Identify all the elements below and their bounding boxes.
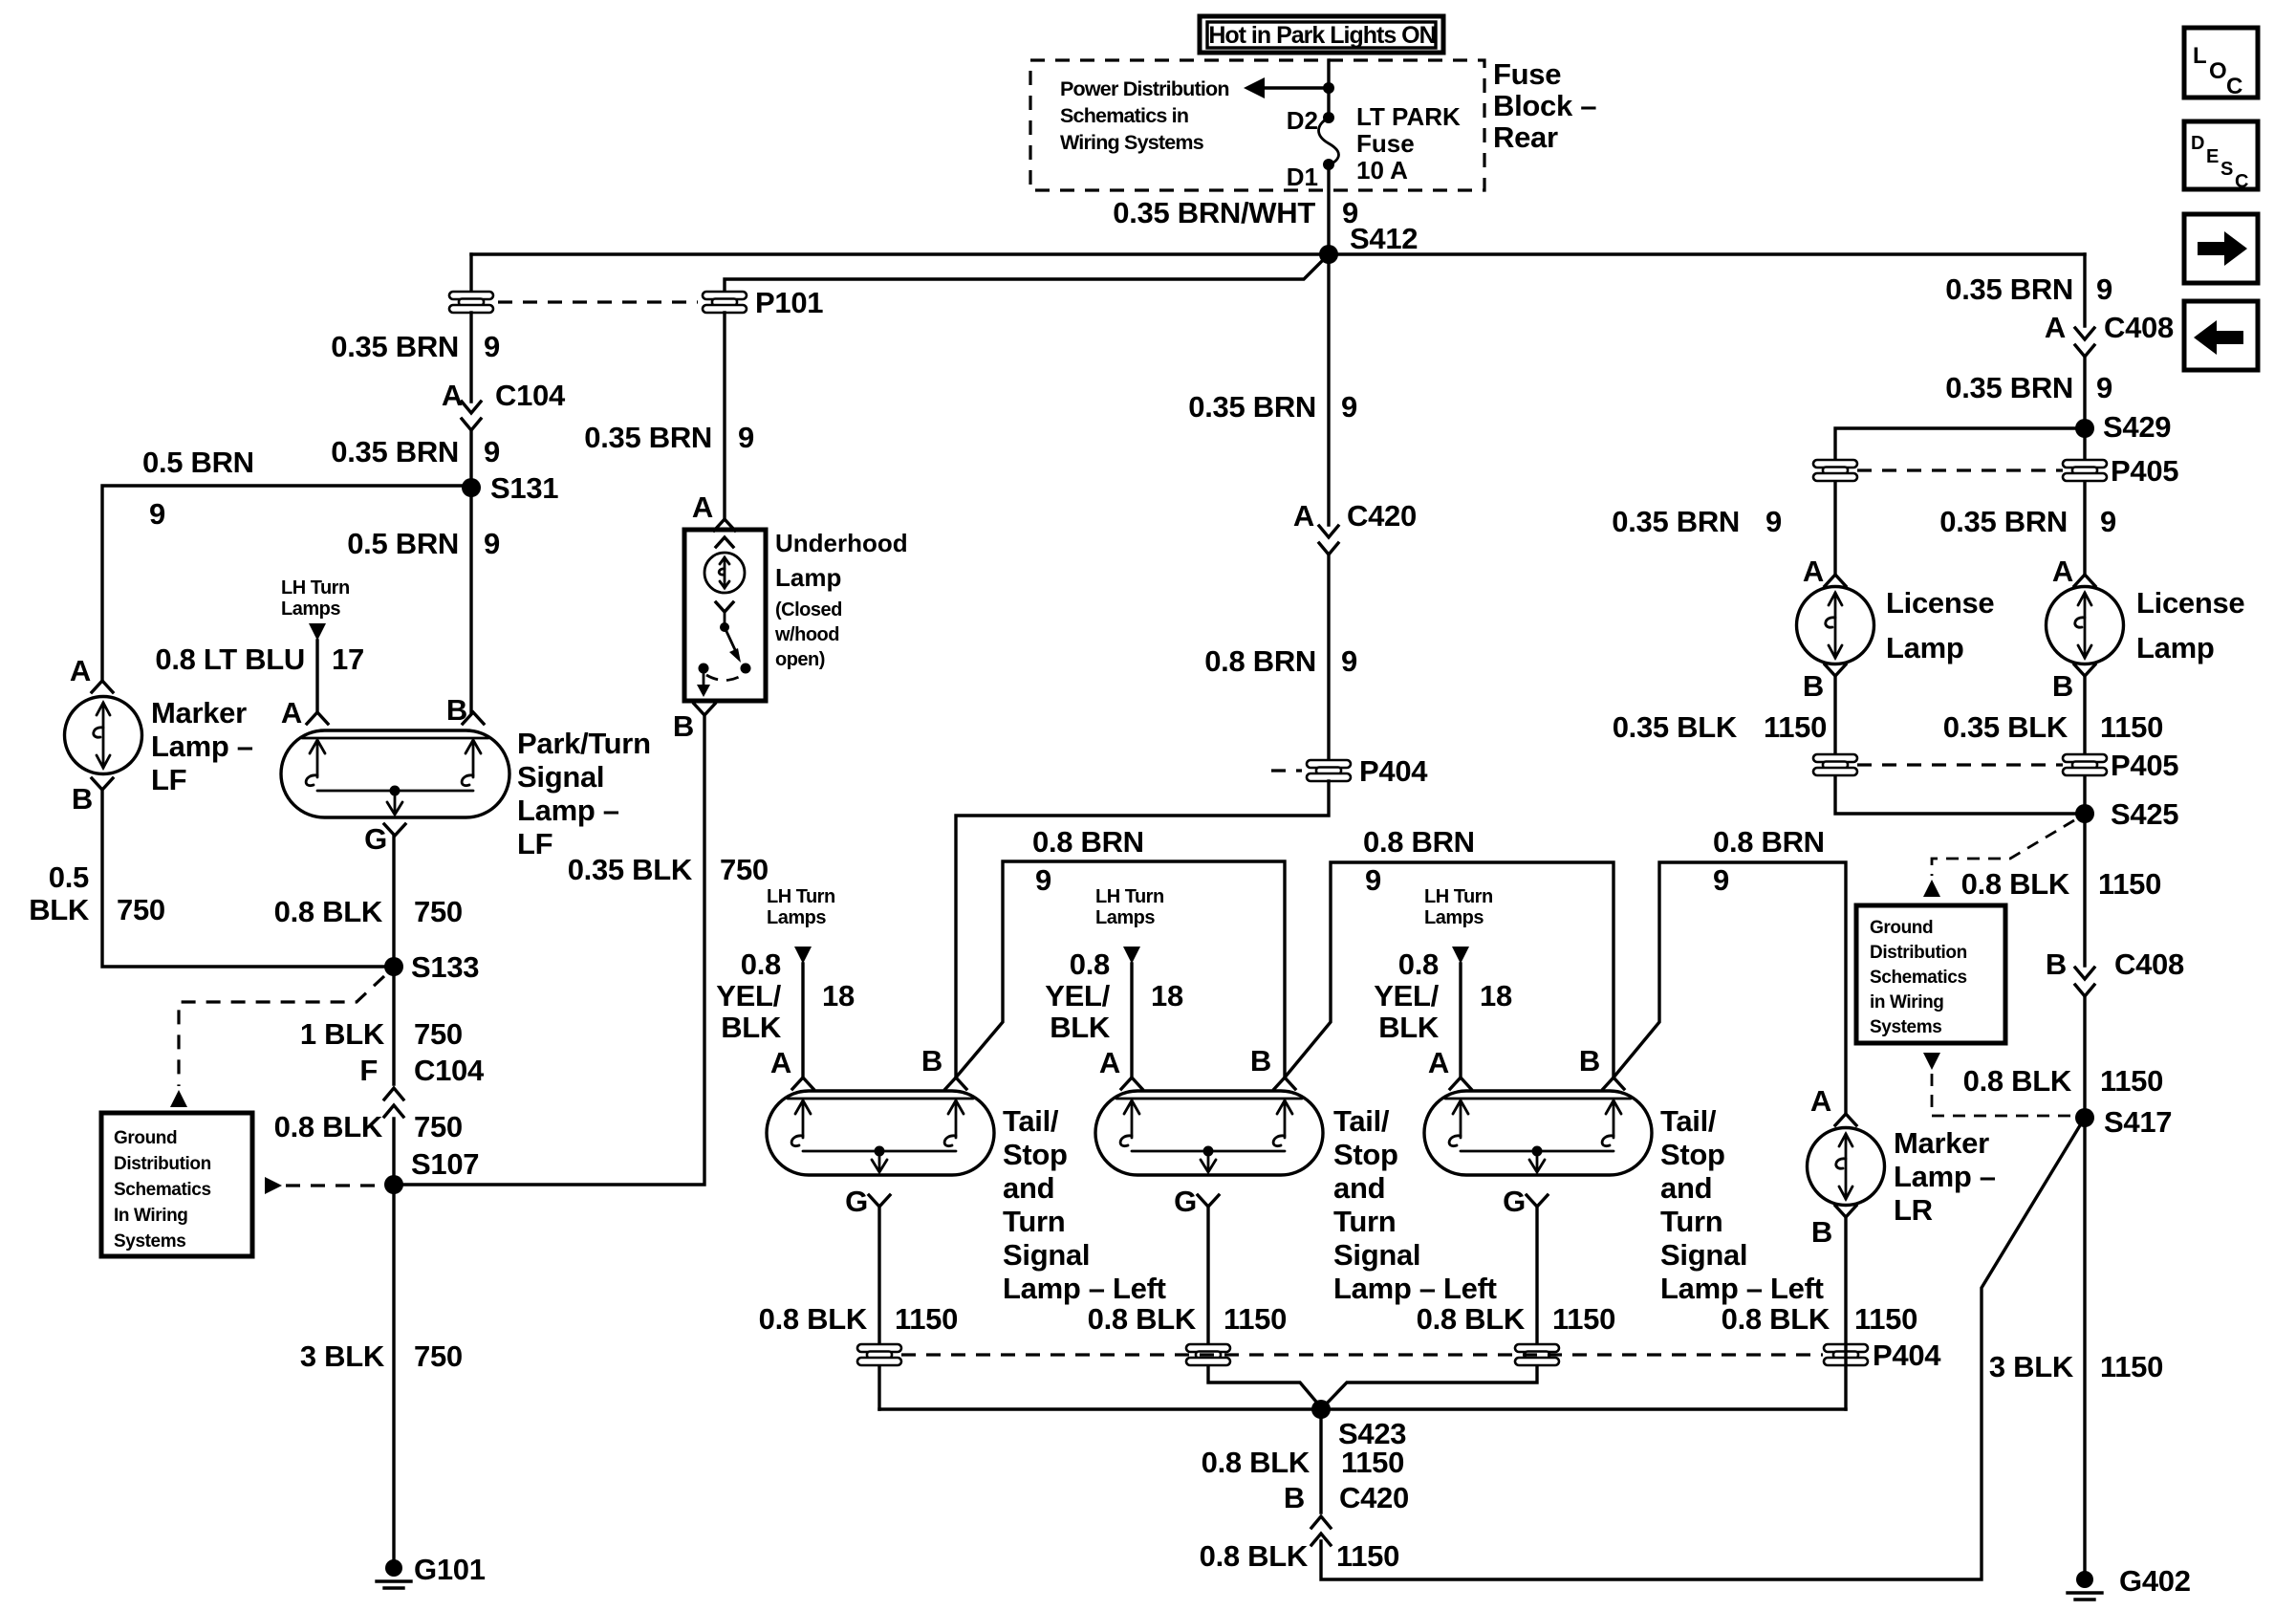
nav box back arrow <box>2184 301 2258 370</box>
svg-text:Ground: Ground <box>1870 918 1933 938</box>
label Underhood Lamp <box>775 529 908 592</box>
svg-text:Schematics: Schematics <box>1870 968 1967 988</box>
svg-text:B: B <box>2046 947 2067 981</box>
svg-text:A: A <box>2052 555 2073 588</box>
svg-text:BLK: BLK <box>29 893 90 926</box>
svg-text:License: License <box>1886 586 1994 620</box>
wire 3 BLK S107 to G101 <box>392 1185 395 1568</box>
pin G park/turn lamp <box>364 822 405 856</box>
wire main bus from S412 <box>471 252 2085 255</box>
svg-text:B: B <box>673 709 694 743</box>
label Park/Turn Signal Lamp - LF <box>517 727 651 860</box>
svg-text:LH Turn: LH Turn <box>281 577 350 599</box>
svg-text:O: O <box>2209 58 2227 84</box>
lamp Tail/Stop 2 filament B <box>1277 1100 1292 1114</box>
svg-text:Fuse: Fuse <box>1493 57 1561 91</box>
pin G tail lamp 3 <box>1503 1185 1548 1218</box>
pin A tail lamp 1 <box>770 1046 813 1089</box>
svg-text:1150: 1150 <box>2100 1350 2163 1383</box>
svg-text:L: L <box>2193 43 2207 69</box>
wire dashed reference to ground note <box>170 976 384 1107</box>
svg-text:S131: S131 <box>490 471 558 505</box>
svg-text:YEL/: YEL/ <box>716 979 781 1012</box>
wire license right B down <box>2083 676 2086 966</box>
lamp Tail/Stop 1 filament A <box>795 1100 811 1114</box>
svg-text:0.8 BLK: 0.8 BLK <box>1961 867 2070 901</box>
wire 0.8 BLK tail 1 G <box>877 1207 880 1409</box>
svg-text:BLK: BLK <box>1050 1011 1111 1044</box>
svg-text:0.5: 0.5 <box>49 860 89 894</box>
svg-text:0.8: 0.8 <box>1398 947 1439 981</box>
label 0.8 BLK 1150 (below C420) <box>1200 1539 1399 1573</box>
svg-text:YEL/: YEL/ <box>1374 979 1439 1012</box>
svg-text:Power Distribution: Power Distribution <box>1060 77 1229 100</box>
wire dashed reference S425 to ground note <box>1923 820 2074 897</box>
label 0.5 BLK 750 <box>29 860 165 926</box>
label Tail/Stop and Turn Signal Lamp - Left (3) <box>1660 1104 1824 1305</box>
label 3 BLK 1150 <box>1989 1350 2163 1383</box>
lamp Tail/Stop 3 ground arm arrow <box>1536 1151 1539 1171</box>
svg-text:0.35 BRN: 0.35 BRN <box>584 421 712 454</box>
svg-text:18: 18 <box>1151 979 1183 1012</box>
wire 0.8 BLK marker LR B to S423 bus <box>1844 1217 1847 1409</box>
underhood lamp assembly box <box>684 530 766 701</box>
svg-text:S429: S429 <box>2103 410 2171 444</box>
wire dashed reference ground note to S417 <box>1923 1053 2072 1116</box>
svg-text:C420: C420 <box>1339 1481 1409 1514</box>
connector P405 top pair <box>1813 454 2178 488</box>
svg-text:9: 9 <box>149 497 165 531</box>
fuse block dashed boundary <box>1030 60 1484 190</box>
svg-text:Lamp – Left: Lamp – Left <box>1333 1272 1497 1305</box>
pin B tail lamp 3 <box>1579 1044 1624 1089</box>
svg-text:0.8 BRN: 0.8 BRN <box>1204 644 1316 678</box>
header box "Hot in Park Lights ON" <box>1200 16 1443 53</box>
svg-text:1150: 1150 <box>895 1302 958 1336</box>
svg-text:1150: 1150 <box>1341 1446 1404 1479</box>
svg-text:Lamp –: Lamp – <box>151 729 253 763</box>
svg-text:Underhood: Underhood <box>775 529 908 557</box>
lamp Park/Turn Signal LF body <box>281 730 509 817</box>
nav box forward arrow <box>2184 214 2258 283</box>
svg-text:Lamp –: Lamp – <box>1894 1160 1996 1193</box>
svg-text:P404: P404 <box>1873 1339 1941 1372</box>
svg-text:Lamps: Lamps <box>767 907 826 928</box>
wire 0.8 BLK C420 to 3 BLK riser <box>1321 1118 2085 1579</box>
connector P101 <box>703 286 823 319</box>
svg-text:0.35 BRN: 0.35 BRN <box>1939 505 2068 538</box>
svg-text:1150: 1150 <box>2100 710 2163 744</box>
svg-text:Schematics in: Schematics in <box>1060 104 1188 127</box>
svg-text:and: and <box>1333 1171 1385 1205</box>
label 0.35 BRN 9 <box>1945 371 2112 404</box>
svg-text:9: 9 <box>738 421 754 454</box>
svg-text:0.8 BLK: 0.8 BLK <box>274 895 383 928</box>
svg-text:1150: 1150 <box>1336 1539 1399 1573</box>
label Tail/Stop and Turn Signal Lamp - Left (2) <box>1333 1104 1497 1305</box>
svg-text:Ground: Ground <box>114 1128 177 1148</box>
pin A underhood lamp <box>692 490 735 531</box>
svg-text:Stop: Stop <box>1333 1138 1398 1171</box>
pin D1 <box>1287 159 1334 191</box>
svg-text:B: B <box>1579 1044 1600 1078</box>
svg-text:0.35 BRN: 0.35 BRN <box>331 330 459 363</box>
ground G402 <box>2068 1564 2191 1600</box>
svg-text:9: 9 <box>484 435 500 468</box>
wire 0.8 BRN tail 1 B to tail 2 B <box>956 861 1285 1078</box>
label 0.35 BLK 1150 (right) <box>1943 710 2163 744</box>
svg-text:Lamp: Lamp <box>2136 631 2214 664</box>
lamp Tail/Stop 3 inner top conductor <box>1445 1098 1631 1100</box>
svg-text:Lamp: Lamp <box>1886 631 1963 664</box>
svg-text:9: 9 <box>1341 390 1357 424</box>
svg-text:0.8 BLK: 0.8 BLK <box>1963 1064 2072 1098</box>
svg-text:Marker: Marker <box>1894 1126 1989 1160</box>
svg-text:Stop: Stop <box>1003 1138 1068 1171</box>
svg-text:0.35 BRN: 0.35 BRN <box>1612 505 1740 538</box>
svg-text:B: B <box>2052 669 2073 703</box>
pin B license lamp left <box>1803 664 1846 703</box>
label 0.8 BLK 750 <box>274 895 463 928</box>
lamp Tail/Stop 1 inner top conductor <box>788 1098 973 1100</box>
svg-text:C408: C408 <box>2114 947 2184 981</box>
svg-text:P101: P101 <box>755 286 823 319</box>
svg-text:A: A <box>70 654 91 687</box>
svg-text:Fuse: Fuse <box>1356 129 1415 158</box>
bulb marker lamp LR <box>1808 1128 1885 1206</box>
svg-text:750: 750 <box>117 893 165 926</box>
svg-text:A: A <box>442 379 463 412</box>
svg-text:0.8: 0.8 <box>1070 947 1110 981</box>
svg-text:C: C <box>2226 74 2242 99</box>
nav box LOC <box>2184 28 2258 99</box>
svg-text:Lamp – Left: Lamp – Left <box>1003 1272 1166 1305</box>
wire fuse feed vertical <box>1327 60 1330 118</box>
svg-text:S133: S133 <box>411 950 479 984</box>
svg-text:S412: S412 <box>1350 222 1418 255</box>
lamp Tail/Stop 1 inner bottom conductor <box>803 1150 956 1153</box>
svg-text:A: A <box>1293 499 1314 533</box>
node LH Turn Lamps feed (tail 2) <box>1095 886 1164 1078</box>
svg-text:18: 18 <box>822 979 855 1012</box>
underhood lamp internal bulb <box>704 537 745 593</box>
wire dashed bulkhead link P404 bottom <box>901 1353 1823 1356</box>
wire 0.35 BRN P101 to underhood A <box>723 313 726 519</box>
svg-text:G: G <box>1503 1185 1526 1218</box>
connector P405 bottom pair <box>1813 749 2178 782</box>
svg-text:A: A <box>1428 1046 1449 1079</box>
svg-text:Schematics: Schematics <box>114 1180 211 1200</box>
svg-text:Lamps: Lamps <box>1424 907 1484 928</box>
label 0.8 YEL/BLK 18 (tail 1) <box>716 947 855 1044</box>
svg-text:A: A <box>2045 311 2066 344</box>
svg-text:Lamps: Lamps <box>281 599 340 620</box>
svg-text:G: G <box>1174 1185 1197 1218</box>
lamp Park/Turn Signal LF filament A <box>310 740 325 753</box>
label Fuse Block - Rear <box>1493 57 1596 154</box>
pin B marker lamp LF <box>72 778 113 816</box>
svg-text:0.35 BLK: 0.35 BLK <box>1613 710 1738 744</box>
label 0.8 BLK 1150 (tail 1) <box>759 1302 958 1336</box>
splice S429 <box>2075 410 2171 444</box>
wire 0.8 BLK tail 2 G to S423 <box>1208 1207 1321 1407</box>
svg-text:B: B <box>72 782 93 816</box>
label Marker Lamp - LR <box>1894 1126 1996 1227</box>
svg-text:9: 9 <box>1035 863 1051 897</box>
splice S131 <box>462 471 558 505</box>
label 0.35 BLK 1150 (left) <box>1613 710 1827 744</box>
svg-text:0.8 BLK: 0.8 BLK <box>1722 1302 1830 1336</box>
svg-text:9: 9 <box>484 527 500 560</box>
wire connector to C104 <box>469 313 472 402</box>
lamp Tail/Stop 1 ground arm arrow <box>878 1151 881 1171</box>
svg-text:G: G <box>845 1185 868 1218</box>
wire main bus down right side <box>2083 254 2086 326</box>
wire S412 down to C420 <box>1327 254 1330 525</box>
pin B underhood lamp <box>673 704 715 743</box>
connector P404 <box>1271 754 1428 788</box>
label 0.8 BRN 9 (segment 1) <box>1032 825 1144 897</box>
svg-text:G101: G101 <box>414 1553 486 1586</box>
pin A license lamp left <box>1803 555 1846 588</box>
svg-text:License: License <box>2136 586 2244 620</box>
lamp Tail/Stop 3 filament A <box>1453 1100 1468 1114</box>
svg-text:S417: S417 <box>2104 1105 2172 1139</box>
svg-text:750: 750 <box>720 853 769 886</box>
pin A park/turn lamp <box>281 696 328 729</box>
lamp Tail/Stop 2 filament A <box>1124 1100 1139 1114</box>
label 0.8 BLK 1150 (above S417) <box>1963 1064 2163 1098</box>
pin B park/turn lamp <box>446 693 484 727</box>
svg-text:B: B <box>1250 1044 1271 1078</box>
bulb license lamp left <box>1797 587 1874 664</box>
svg-text:A: A <box>281 696 302 729</box>
svg-text:LH Turn: LH Turn <box>1095 886 1164 907</box>
svg-text:Lamp: Lamp <box>775 563 841 592</box>
svg-text:B: B <box>446 693 467 727</box>
svg-text:LH Turn: LH Turn <box>1424 886 1493 907</box>
bulb license lamp right <box>2047 587 2124 664</box>
label License Lamp (right) <box>2136 586 2244 664</box>
wire 0.5 BLK marker B to S133 <box>102 790 394 967</box>
fuse LT PARK 10A element <box>1319 118 1339 165</box>
label 0.8 YEL/BLK 18 (tail 3) <box>1374 947 1512 1044</box>
label 0.35 BRN 9 <box>584 421 754 454</box>
splice S417 <box>2075 1105 2172 1139</box>
svg-text:D: D <box>2191 133 2204 154</box>
svg-text:in Wiring: in Wiring <box>1870 992 1944 1012</box>
label 0.8 BLK 1150 (tail 2) <box>1088 1302 1287 1336</box>
lamp Tail/Stop 2 inner bottom conductor <box>1132 1150 1285 1153</box>
label 0.8 BRN 9 (segment 2) <box>1363 825 1475 897</box>
label 0.8 YEL/BLK 18 (tail 2) <box>1045 947 1183 1044</box>
lamp Tail/Stop 2 body <box>1095 1091 1323 1175</box>
label LT PARK Fuse 10 A <box>1356 102 1461 185</box>
label 0.35 BRN/WHT 9 <box>1113 196 1358 229</box>
wire branch S412 to P101 <box>725 254 1329 292</box>
wire C420 to P404 <box>1327 556 1330 760</box>
svg-text:P404: P404 <box>1359 754 1428 788</box>
svg-text:9: 9 <box>484 330 500 363</box>
svg-text:LF: LF <box>151 763 186 796</box>
svg-text:Marker: Marker <box>151 696 247 729</box>
svg-text:1150: 1150 <box>2100 1064 2163 1098</box>
wire license left B to S425 <box>1835 676 2085 814</box>
connector C408 pin B <box>2046 947 2184 996</box>
lamp Tail/Stop 1 body <box>767 1091 994 1175</box>
svg-text:0.8 BRN: 0.8 BRN <box>1363 825 1475 859</box>
wire 0.8 BLK G to S133 <box>392 836 395 967</box>
splice S423 <box>1311 1400 1406 1450</box>
svg-text:9: 9 <box>1713 863 1729 897</box>
wire C104 to S131 <box>469 432 472 712</box>
svg-text:A: A <box>1099 1046 1120 1079</box>
svg-text:750: 750 <box>414 1017 463 1051</box>
svg-text:9: 9 <box>1365 863 1381 897</box>
bulb marker lamp LF <box>65 697 142 774</box>
svg-text:0.8 BLK: 0.8 BLK <box>1088 1302 1197 1336</box>
svg-text:0.8 BRN: 0.8 BRN <box>1032 825 1144 859</box>
svg-text:C420: C420 <box>1347 499 1417 533</box>
svg-text:0.8 BLK: 0.8 BLK <box>1202 1446 1310 1479</box>
svg-text:0.8 BLK: 0.8 BLK <box>1200 1539 1309 1573</box>
svg-text:Distribution: Distribution <box>114 1154 211 1174</box>
svg-text:S: S <box>2220 159 2233 180</box>
lamp Tail/Stop 1 filament B <box>948 1100 964 1114</box>
svg-text:Lamp –: Lamp – <box>517 794 619 827</box>
svg-text:BLK: BLK <box>721 1011 782 1044</box>
svg-text:LH Turn: LH Turn <box>767 886 835 907</box>
svg-text:Systems: Systems <box>114 1231 185 1252</box>
svg-text:C: C <box>2235 171 2248 192</box>
svg-text:0.35 BRN: 0.35 BRN <box>1945 371 2073 404</box>
connector C104 pin A <box>442 379 566 430</box>
svg-text:0.8: 0.8 <box>741 947 781 981</box>
svg-text:Signal: Signal <box>1003 1238 1090 1272</box>
pin B license lamp right <box>2052 664 2095 703</box>
svg-text:750: 750 <box>414 1110 463 1143</box>
wire S107 to underhood lamp B <box>394 717 704 1185</box>
svg-text:BLK: BLK <box>1378 1011 1440 1044</box>
label 0.35 BRN 9 (license right) <box>1939 505 2116 538</box>
pin A license lamp right <box>2052 555 2095 588</box>
svg-text:B: B <box>1803 669 1824 703</box>
connector pass-through tail 1 <box>857 1344 901 1365</box>
svg-text:YEL/: YEL/ <box>1045 979 1110 1012</box>
lamp Park/Turn Signal LF ground arm arrow <box>394 791 397 814</box>
connector pass-through tail 3 <box>1515 1344 1559 1365</box>
svg-text:S425: S425 <box>2111 797 2178 831</box>
label 1 BLK 750 <box>300 1017 463 1051</box>
svg-text:G402: G402 <box>2119 1564 2191 1598</box>
svg-text:B: B <box>1811 1215 1832 1249</box>
svg-text:A: A <box>1803 555 1824 588</box>
wire S429 branch to left license lamp <box>1835 428 2085 575</box>
svg-text:A: A <box>1810 1084 1831 1118</box>
wire stub to pass-through <box>469 254 472 292</box>
svg-text:(Closed: (Closed <box>775 599 842 620</box>
svg-text:LR: LR <box>1894 1193 1933 1227</box>
svg-text:B: B <box>1284 1481 1305 1514</box>
svg-text:Signal: Signal <box>1660 1238 1747 1272</box>
connector C420 pin B <box>1284 1481 1409 1545</box>
svg-text:0.35 BLK: 0.35 BLK <box>568 853 693 886</box>
label Tail/Stop and Turn Signal Lamp - Left (1) <box>1003 1104 1166 1305</box>
svg-text:0.35 BLK: 0.35 BLK <box>1943 710 2069 744</box>
nav box DESC <box>2184 121 2258 192</box>
svg-text:3 BLK: 3 BLK <box>1989 1350 2074 1383</box>
connector C104 pin F <box>359 1054 485 1117</box>
label 0.8 LT BLU 17 <box>155 642 364 676</box>
wire S423 to C420 <box>1319 1409 1322 1513</box>
svg-text:Turn: Turn <box>1003 1205 1065 1238</box>
underhood lamp switch closed w/hood open <box>697 602 751 697</box>
junction on fuse feed <box>1323 82 1334 94</box>
wire C408 to S429 <box>2083 359 2086 575</box>
svg-text:C104: C104 <box>495 379 566 412</box>
svg-text:Turn: Turn <box>1333 1205 1396 1238</box>
wire C408 to S417 <box>2083 998 2086 1579</box>
svg-text:F: F <box>359 1054 378 1087</box>
svg-text:1150: 1150 <box>2098 867 2161 901</box>
svg-text:D2: D2 <box>1287 106 1318 135</box>
node LH Turn Lamps feed (park/turn) <box>281 577 350 712</box>
connector pass-through left <box>449 292 493 313</box>
svg-text:D1: D1 <box>1287 163 1318 191</box>
svg-text:Park/Turn: Park/Turn <box>517 727 651 760</box>
lamp Tail/Stop 3 inner bottom conductor <box>1461 1150 1614 1153</box>
svg-text:Block –: Block – <box>1493 89 1596 122</box>
svg-text:1150: 1150 <box>1224 1302 1287 1336</box>
splice S412 <box>1319 222 1418 264</box>
svg-text:0.8 BLK: 0.8 BLK <box>274 1110 383 1143</box>
label 0.8 BLK 750 <box>274 1110 463 1143</box>
svg-text:Tail/: Tail/ <box>1660 1104 1717 1138</box>
svg-text:Hot in Park Lights ON: Hot in Park Lights ON <box>1208 22 1435 49</box>
label 0.8 BLK 1150 (S425) <box>1961 867 2161 901</box>
svg-text:Distribution: Distribution <box>1870 943 1967 963</box>
svg-text:3 BLK: 3 BLK <box>300 1339 385 1373</box>
svg-text:Lamps: Lamps <box>1095 907 1155 928</box>
lamp Tail/Stop 2 ground arm arrow <box>1207 1151 1210 1171</box>
svg-text:and: and <box>1660 1171 1712 1205</box>
lamp Park/Turn Signal LF inner bottom conductor <box>317 790 473 793</box>
splice S107 <box>384 1147 479 1194</box>
connector C408 pin A <box>2045 311 2174 357</box>
svg-text:Lamp – Left: Lamp – Left <box>1660 1272 1824 1305</box>
label 0.8 BLK 1150 (marker LR) <box>1722 1302 1917 1336</box>
svg-text:Rear: Rear <box>1493 120 1558 154</box>
lamp Tail/Stop 2 inner top conductor <box>1116 1098 1302 1100</box>
svg-text:Turn: Turn <box>1660 1205 1722 1238</box>
svg-text:1150: 1150 <box>1764 710 1827 744</box>
ground note box right <box>1856 905 2005 1043</box>
svg-text:10 A: 10 A <box>1356 156 1408 185</box>
wire 0.8 BLK tail 3 G to S423 <box>1324 1207 1537 1406</box>
wire C104 to S107 <box>392 1119 395 1185</box>
svg-text:0.35 BRN: 0.35 BRN <box>1188 390 1316 424</box>
svg-text:C408: C408 <box>2104 311 2174 344</box>
svg-text:Systems: Systems <box>1870 1017 1941 1037</box>
svg-text:S107: S107 <box>411 1147 479 1181</box>
wire 0.5 BRN S131 to marker lamp LF <box>102 486 471 681</box>
wire 0.8 BRN P404 to tail lamp 1 pin B <box>956 781 1329 1078</box>
node LH Turn Lamps feed (tail 1) <box>767 886 835 1078</box>
svg-text:Signal: Signal <box>517 760 604 794</box>
svg-text:Stop: Stop <box>1660 1138 1725 1171</box>
svg-text:Signal: Signal <box>1333 1238 1420 1272</box>
svg-text:E: E <box>2206 146 2219 167</box>
